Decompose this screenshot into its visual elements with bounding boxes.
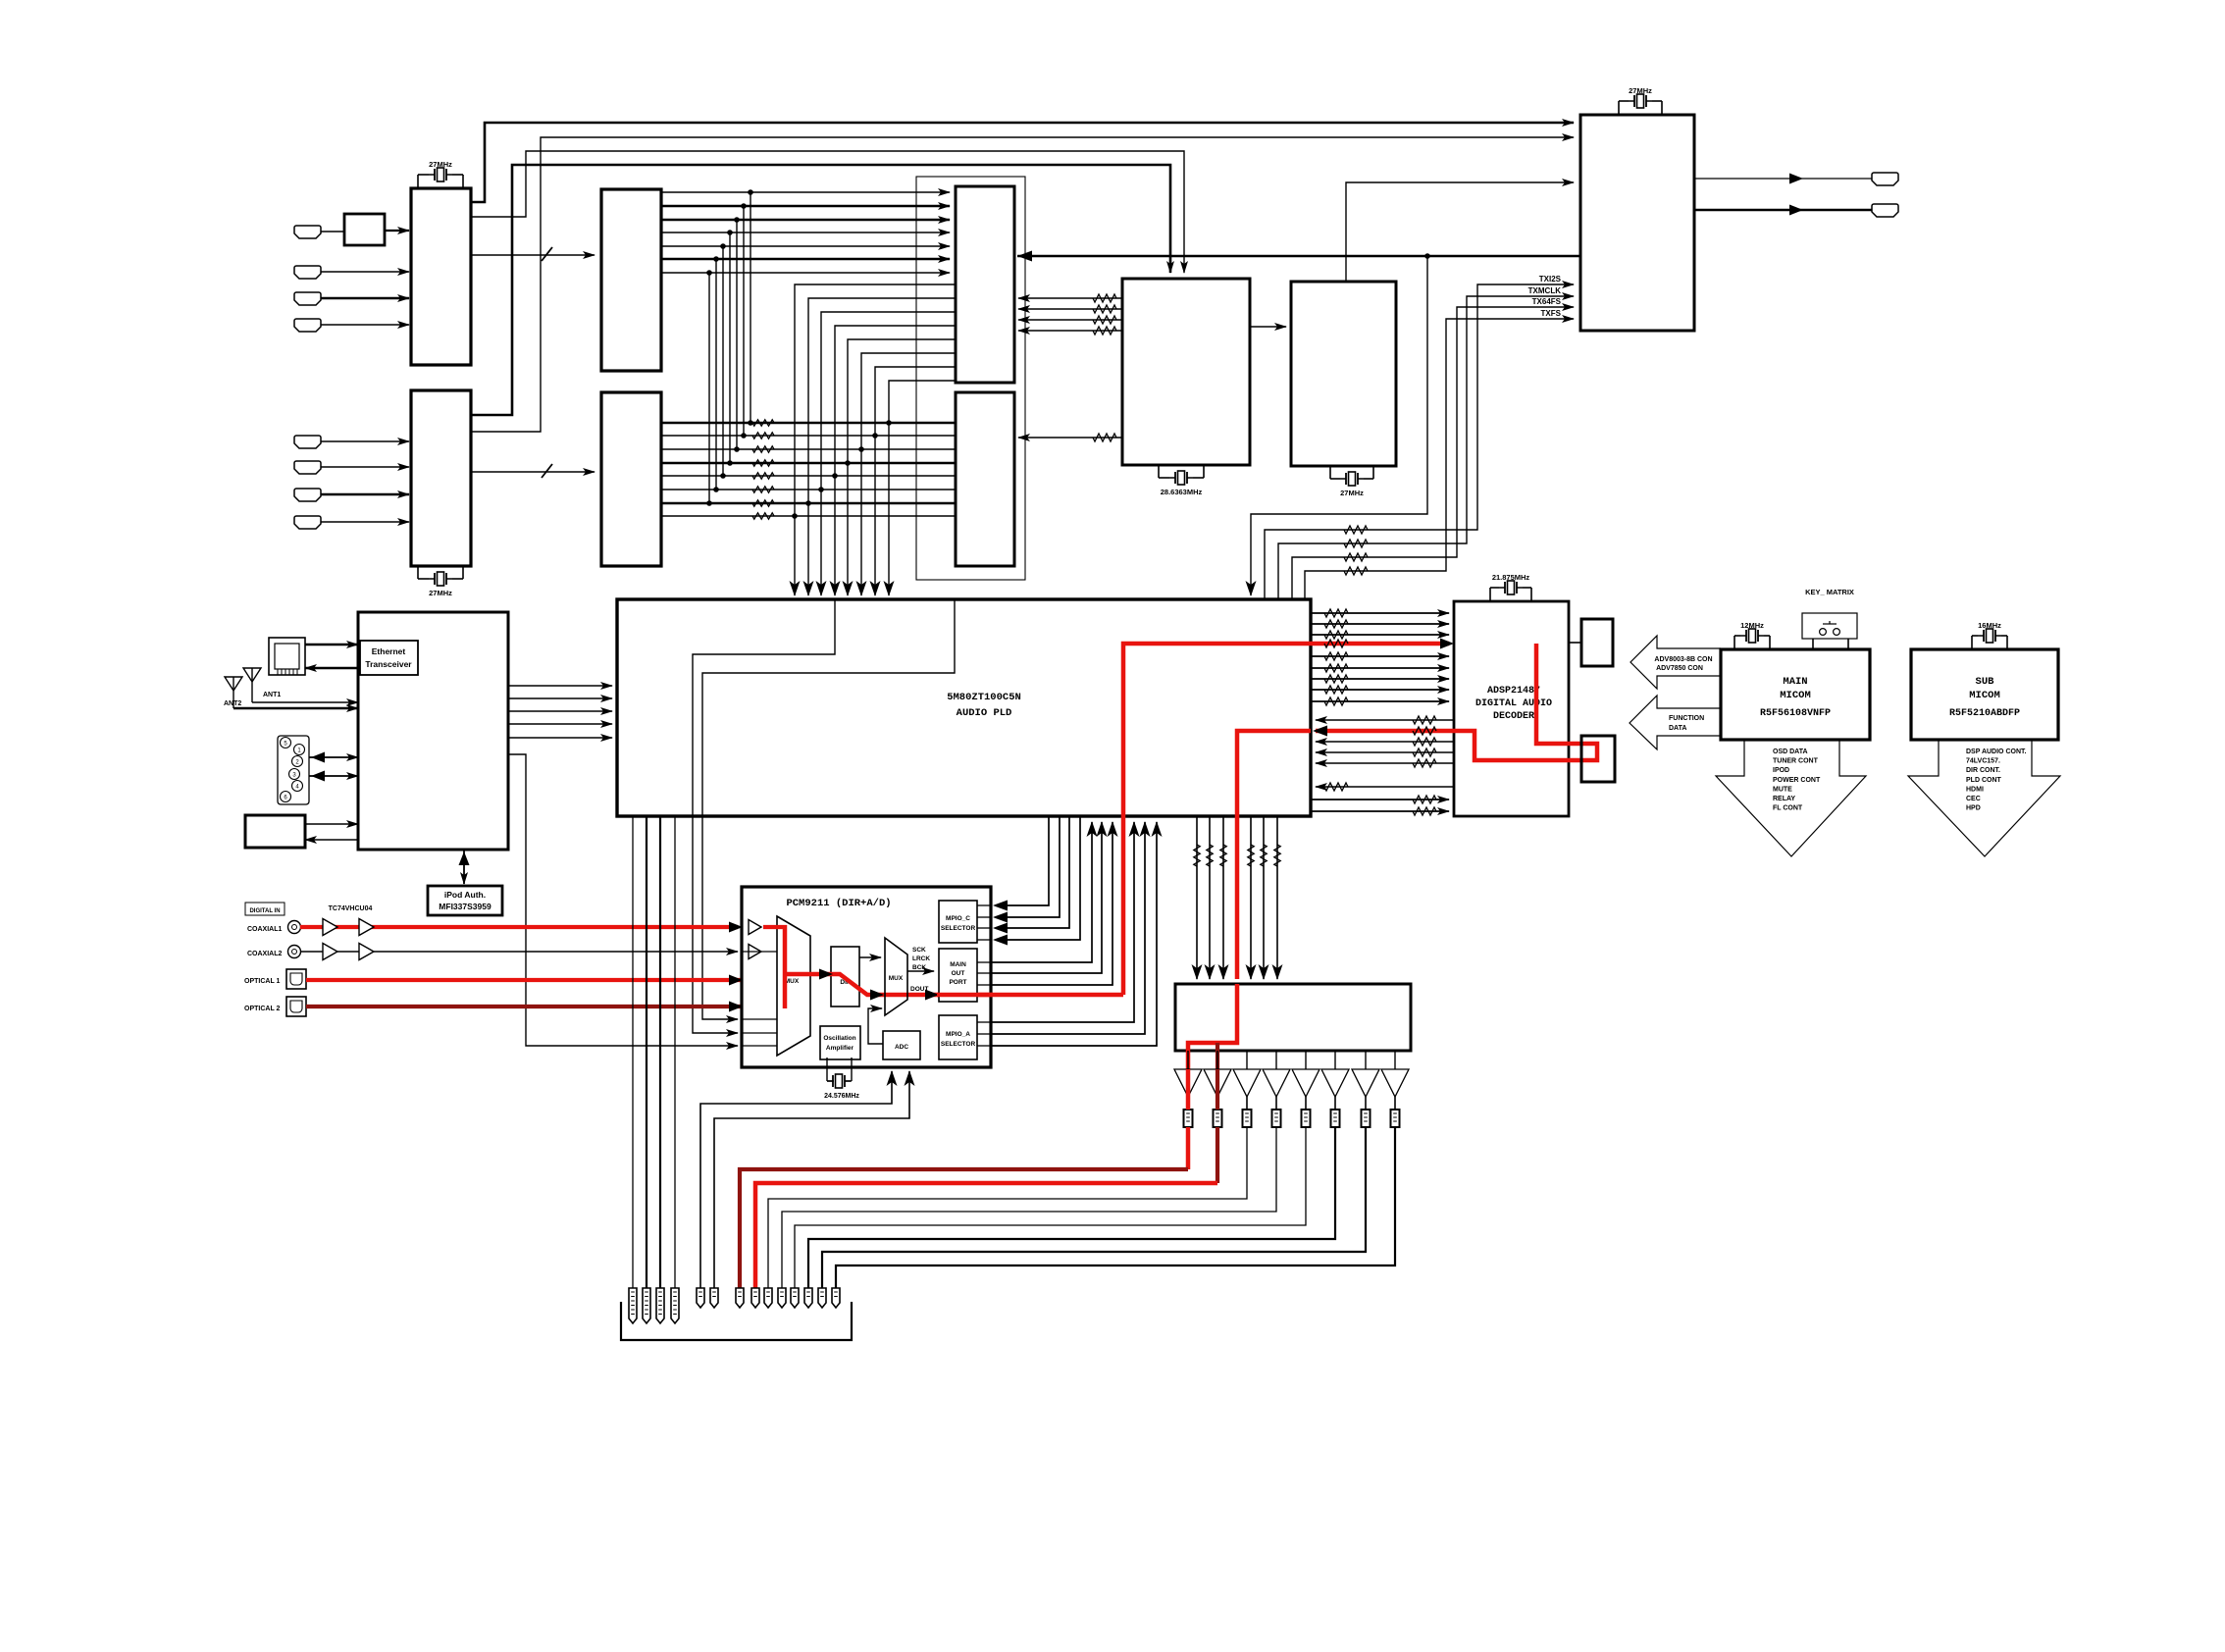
- net PLD-DSP4: audio PLD to ADSP: [1311, 655, 1449, 657]
- net DSP-PLD2: ADSP to audio PLD: [1316, 741, 1454, 743]
- net PLD to driver 1: [1196, 816, 1198, 979]
- junction: [858, 446, 864, 452]
- resistor on red return net: [1413, 727, 1436, 735]
- ferrite bead FB6: [1331, 1110, 1340, 1127]
- svg-text:SCK: SCK: [912, 947, 926, 954]
- crystal X9 16MHz on U19: [1971, 636, 1973, 649]
- net driver out 3 to pin: [768, 1127, 1247, 1288]
- connector pin P2: [643, 1288, 650, 1323]
- HDMI transmitter U9: [1580, 115, 1694, 331]
- DIR box: [831, 947, 859, 1007]
- DIN connector J12 with pins 1-6: [278, 736, 309, 804]
- red net DOUT riser to ADSP (through PLD): [1123, 644, 1449, 995]
- ferrite bead FB1: [1184, 1110, 1193, 1127]
- MAIN MICOM U18: [1721, 649, 1870, 740]
- wire U11 to audio PLD row 5: [508, 737, 612, 739]
- net TX64FS: audio PLD to HDMI TX: [1292, 307, 1574, 599]
- wire J2 to U2: [321, 271, 409, 273]
- wire U5 pin row 2 via resistor to U6b: [661, 435, 956, 437]
- svg-text:21.875MHz: 21.875MHz: [1492, 573, 1530, 582]
- crystal X8 12MHz on U18: [1733, 636, 1735, 649]
- resistor: [1194, 845, 1200, 866]
- connector pin P5: [697, 1288, 704, 1308]
- junction: [713, 256, 719, 262]
- wire J12 to U11 bidirectional (pair 2): [309, 775, 358, 777]
- svg-text:DECODER: DECODER: [1493, 711, 1534, 722]
- svg-text:DOUT: DOUT: [910, 986, 928, 993]
- video decoder U7: [1122, 279, 1250, 465]
- connector pin P9: [764, 1288, 772, 1308]
- svg-text:LRCK: LRCK: [912, 955, 930, 962]
- svg-text:ANT2: ANT2: [224, 700, 241, 707]
- wire to ferrite bead: [1216, 1097, 1218, 1110]
- branch wire down to lower bus: [736, 220, 738, 449]
- ferrite bead FB3: [1243, 1110, 1252, 1127]
- net PLDTOP7: audio PLD top to U6a: [875, 367, 956, 595]
- red net into ADSP (arrowhead): [1440, 639, 1454, 649]
- net PLD to driver 5: [1263, 816, 1265, 979]
- resistor: [1274, 845, 1280, 866]
- connector pin P1: [629, 1288, 637, 1323]
- svg-text:COAXIAL1: COAXIAL1: [247, 926, 283, 933]
- wires aux inside to MUX: [743, 1018, 777, 1020]
- level shifter U5 (lower): [601, 392, 661, 566]
- crystal X1 27MHz on U2: [417, 175, 419, 188]
- svg-text:ANT1: ANT1: [263, 692, 281, 698]
- wire J12 to U11 bidirectional (pair): [309, 756, 358, 758]
- net SPDIF OPT2 (dark red): [306, 1005, 785, 1008]
- audio driver block U17: [1175, 984, 1411, 1051]
- wire U7 to U6b via resistor: [1018, 437, 1122, 439]
- wire U4 pin row 5 to U6a: [661, 245, 950, 247]
- HDMI output connector J10: [1872, 204, 1898, 217]
- net PLDTOP6: audio PLD top to U6a: [861, 353, 956, 595]
- front USB box J13: [245, 815, 305, 848]
- net MPIO_A3: U15 to audio PLD: [977, 1045, 991, 1047]
- svg-text:RELAY: RELAY: [1773, 796, 1795, 802]
- red net DOUT over MAIN OUT PORT: [937, 993, 993, 998]
- wire U11 to J13: [305, 839, 358, 841]
- connector CN1: [1581, 619, 1613, 666]
- wire U4 pin row 4 to U6a: [661, 232, 950, 233]
- input buffer into U15 (coax2): [749, 945, 761, 959]
- MPIO_A SELECTOR box: [939, 1015, 977, 1059]
- block arrow FUNCTION DATA: [1630, 696, 1721, 749]
- svg-text:IPOD: IPOD: [1773, 767, 1789, 774]
- svg-text:AUDIO PLD: AUDIO PLD: [957, 707, 1012, 719]
- svg-text:iPod Auth.: iPod Auth.: [444, 890, 486, 900]
- svg-text:COAXIAL2: COAXIAL2: [247, 951, 283, 957]
- connector bracket outline: [621, 1302, 852, 1340]
- resistor: [1324, 664, 1348, 672]
- svg-text:SELECTOR: SELECTOR: [941, 1041, 976, 1048]
- junction: [734, 446, 740, 452]
- wire U5 pin row 5 via resistor to U6b: [661, 475, 956, 477]
- svg-text:DSP AUDIO CONT.: DSP AUDIO CONT.: [1966, 749, 2027, 755]
- ferrite bead FB2: [1214, 1110, 1222, 1127]
- connector pin P11: [791, 1288, 799, 1308]
- resistor: [1248, 845, 1254, 866]
- resistor on TXFS: [1344, 567, 1368, 575]
- svg-text:27MHz: 27MHz: [429, 589, 452, 597]
- PCM9211 U15 (DIR+A/D): [742, 887, 991, 1067]
- wire J3 to U2 (thick): [321, 297, 409, 299]
- connector pin P3: [656, 1288, 664, 1323]
- red net inside audio PLD down to driver: [1237, 731, 1311, 979]
- wire ADC to MUX2: [868, 1008, 883, 1044]
- wire PLD to pin P2: [646, 816, 647, 1288]
- label DIGITAL IN: [245, 903, 285, 915]
- connector pin P7: [736, 1288, 744, 1308]
- line driver inverter 4: [1275, 1051, 1277, 1069]
- junction: [845, 460, 851, 466]
- resistor R31: [1093, 305, 1116, 313]
- junction: [818, 487, 824, 492]
- wire U4 pin row 7 to U6a: [661, 272, 950, 274]
- network module U11: [358, 612, 508, 850]
- net PLDTOP1: audio PLD top to U6a: [795, 284, 956, 595]
- net PLD to driver 2: [1209, 816, 1211, 979]
- wire U7 row 2 to U6a: [1018, 308, 1122, 310]
- resistor: [1324, 697, 1348, 705]
- net MPIO_C3: audio PLD to U15: [977, 927, 991, 929]
- branch wire down to lower bus: [729, 232, 731, 463]
- resistor: [1324, 686, 1348, 694]
- net PLD-DSP5: audio PLD to ADSP: [1311, 667, 1449, 669]
- wire to ferrite bead: [1365, 1097, 1367, 1110]
- svg-text:MICOM: MICOM: [1780, 690, 1811, 701]
- net driver out 5 to pin: [795, 1127, 1306, 1288]
- crystal X6 24.576MHz under oscillation amplifier: [826, 1058, 828, 1081]
- ferrite bead FB5: [1302, 1110, 1311, 1127]
- dark red net through inverter 2: [1216, 1069, 1219, 1110]
- HDMI switch IC U3 (lower): [411, 390, 471, 566]
- red net through inverter 1: [1186, 1069, 1191, 1110]
- svg-text:SUB: SUB: [1976, 676, 1995, 688]
- net SPDIF OPT1 (red): [306, 978, 859, 982]
- net DSP-PLD1: ADSP to audio PLD: [1316, 719, 1454, 721]
- net PLD-DSP6: audio PLD to ADSP: [1311, 678, 1449, 680]
- svg-text:ADV7850 CON: ADV7850 CON: [1656, 665, 1703, 672]
- connector pin P8: [751, 1288, 759, 1308]
- line driver inverter 1: [1187, 1051, 1189, 1069]
- video encoder U8: [1291, 282, 1396, 466]
- svg-text:OPTICAL 2: OPTICAL 2: [244, 1006, 281, 1012]
- connector pin P10: [778, 1288, 786, 1308]
- wire to ferrite bead: [1334, 1097, 1336, 1110]
- ferrite bead FB7: [1362, 1110, 1371, 1127]
- resistor R30: [1093, 294, 1116, 302]
- wire PLD to pin P1: [632, 816, 634, 1288]
- crystal X2 27MHz under U3: [417, 566, 419, 579]
- wire U16 to connector CN1: [1569, 642, 1581, 644]
- net PLD-DSP1: audio PLD to ADSP: [1311, 612, 1449, 614]
- HDMI input connector J7: [294, 489, 321, 501]
- KEY_MATRIX switch box: [1812, 639, 1814, 649]
- bus U2 to U4 with width slash: [471, 254, 595, 256]
- svg-text:HPD: HPD: [1966, 805, 1981, 812]
- resistor R24: [752, 473, 774, 479]
- svg-text:27MHz: 27MHz: [1340, 489, 1364, 497]
- resistor on TXI2S: [1344, 526, 1368, 534]
- net MPIO_C1: audio PLD to U15: [977, 904, 991, 906]
- TMDS selector U6b (lower): [956, 392, 1014, 566]
- EDID buffer box U14: [344, 214, 385, 245]
- wire U11 to PCM9211 aux in: [508, 754, 738, 1046]
- resistor: [1207, 845, 1213, 866]
- wire U7 row 1 to U6a: [1018, 297, 1122, 299]
- junction: [748, 420, 753, 426]
- wire J8 to U3: [321, 521, 409, 523]
- line driver inverter 8: [1394, 1051, 1396, 1069]
- wire U4 pin row 6 to U6a: [661, 258, 950, 261]
- crystal X3 28.6363MHz under U7: [1158, 465, 1160, 478]
- MAIN MICOM output arrow (hollow): [1716, 740, 1866, 856]
- red net inside driver U17: [1188, 984, 1237, 1069]
- wire audio PLD routed to PCM9211 aux in 3: [693, 599, 835, 1033]
- svg-text:DIR CONT.: DIR CONT.: [1966, 767, 2000, 774]
- resistor: [1261, 845, 1267, 866]
- ADC box: [883, 1031, 920, 1059]
- resistor R23: [752, 460, 774, 466]
- resistor R25: [752, 487, 774, 492]
- svg-text:TXFS: TXFS: [1541, 309, 1562, 318]
- svg-text:R5F56108VNFP: R5F56108VNFP: [1760, 708, 1831, 719]
- wire U11 to audio PLD row 4: [508, 723, 612, 725]
- resistor on TX64FS: [1344, 553, 1368, 561]
- resistor: [1413, 738, 1436, 746]
- MPIO_C SELECTOR box: [939, 901, 977, 943]
- svg-text:Amplifier: Amplifier: [826, 1045, 854, 1052]
- net PLD-DSP2: audio PLD to ADSP: [1311, 623, 1449, 625]
- net PLD-DSP7: audio PLD to ADSP: [1311, 689, 1449, 691]
- svg-text:SELECTOR: SELECTOR: [941, 925, 976, 932]
- resistor: [1413, 759, 1436, 767]
- net MAINOUT2: U15 to audio PLD: [977, 972, 991, 974]
- bus U3 to U5 with width slash: [471, 471, 595, 473]
- resistor: [1413, 749, 1436, 756]
- junction: [720, 243, 726, 249]
- junction CTRL branch: [1424, 253, 1430, 259]
- svg-text:28.6363MHz: 28.6363MHz: [1161, 488, 1203, 496]
- net PLDTOP3: audio PLD top to U6a: [821, 312, 956, 595]
- svg-text:ADC: ADC: [895, 1044, 908, 1051]
- wire U2 out to HDMI TX (net TOP1, thick): [471, 123, 1574, 202]
- svg-text:Transceiver: Transceiver: [365, 659, 412, 669]
- HDMI input connector J8: [294, 516, 321, 529]
- line driver inverter 7: [1365, 1051, 1367, 1069]
- HDMI input connector J6: [294, 461, 321, 474]
- wire COAXIAL2 inside to MUX: [743, 951, 777, 953]
- resistor on red net: [1324, 640, 1348, 647]
- branch wire down to lower bus: [715, 259, 717, 490]
- wire U9 to HDMI out connector J9: [1694, 178, 1872, 180]
- net SPDIF COAX2: [300, 951, 738, 953]
- net driver out 6 to pin: [808, 1127, 1335, 1288]
- svg-text:27MHz: 27MHz: [429, 160, 452, 169]
- resistor R33: [1093, 327, 1116, 335]
- resistor: [1324, 620, 1348, 628]
- net MPIO_C4: audio PLD to U15: [977, 939, 991, 941]
- MUX trapezoid: [777, 916, 810, 1056]
- wire U11 to audio PLD row 1: [508, 685, 612, 687]
- resistor R22: [752, 446, 774, 452]
- TMDS selector U6a (upper): [956, 186, 1014, 383]
- junction: [727, 230, 733, 235]
- net driver out 7 to pin: [822, 1127, 1366, 1288]
- wire to ferrite bead: [1187, 1097, 1189, 1110]
- junction: [727, 460, 733, 466]
- connector pin P14: [832, 1288, 840, 1308]
- resistor R20: [752, 420, 774, 426]
- net TXMCLK: audio PLD to HDMI TX: [1278, 296, 1574, 599]
- junction: [706, 500, 712, 506]
- resistor R27: [752, 513, 774, 519]
- resistor: [1220, 845, 1226, 866]
- resistor R26: [752, 500, 774, 506]
- junction: [741, 203, 747, 209]
- line driver inverter 6: [1334, 1051, 1336, 1069]
- svg-text:MPIO_A: MPIO_A: [946, 1031, 970, 1038]
- svg-text:MAIN: MAIN: [950, 961, 966, 968]
- net MAINOUT3: U15 to audio PLD: [977, 984, 991, 986]
- connector pin P12: [804, 1288, 812, 1308]
- svg-text:27MHz: 27MHz: [1629, 86, 1652, 95]
- net SPDIF COAX1 (red): [300, 925, 738, 929]
- resistor: [1324, 609, 1348, 617]
- wire DIR to MUX2: [859, 956, 881, 958]
- svg-text:HDMI: HDMI: [1966, 786, 1984, 793]
- buffer U13d: [359, 944, 374, 960]
- wire ANT1 to U11: [252, 701, 358, 703]
- label box Ethernet Transceiver: [360, 641, 418, 675]
- HDMI input connector J1: [294, 226, 321, 238]
- net PLDTOP5: audio PLD top to U6a: [848, 339, 956, 595]
- net DSP-PLD5: ADSP to audio PLD: [1316, 786, 1454, 788]
- input buffer into U15 (coax1): [749, 920, 761, 935]
- wire J1 to EDID box: [321, 231, 344, 232]
- svg-text:MUX: MUX: [889, 975, 904, 982]
- wire U5 pin row 1 via resistor to U6b: [661, 422, 956, 424]
- wire U5 pin row 3 via resistor to U6b: [661, 448, 956, 450]
- svg-text:TX64FS: TX64FS: [1532, 297, 1562, 306]
- junction: [805, 500, 811, 506]
- svg-text:TUNER CONT: TUNER CONT: [1773, 758, 1819, 765]
- svg-text:MAIN: MAIN: [1783, 676, 1807, 688]
- branch down/left into audio PLD top: [1251, 256, 1427, 595]
- wire U5 pin row 6 via resistor to U6b: [661, 489, 956, 490]
- connector pin P4: [671, 1288, 679, 1323]
- red net inside MUX: [783, 925, 788, 1008]
- wire J7 to U3 (thick): [321, 493, 409, 495]
- junction: [886, 420, 892, 426]
- branch wire down to lower bus: [708, 273, 710, 503]
- wire to ferrite bead: [1305, 1097, 1307, 1110]
- net PLD-DSP3: audio PLD to ADSP: [1311, 634, 1449, 636]
- wire to ferrite bead: [1246, 1097, 1248, 1110]
- wire audio PLD routed to PCM9211 aux in 2: [702, 599, 955, 1019]
- wire MUX2 to MAIN OUT PORT (SCK/LRCK/BCK): [907, 970, 934, 972]
- HDMI output connector J9: [1872, 173, 1898, 185]
- connector pin P6: [710, 1288, 718, 1308]
- net PLDTOP4: audio PLD top to U6a: [835, 326, 956, 595]
- svg-text:5M80ZT100C5N: 5M80ZT100C5N: [947, 692, 1021, 703]
- buffer U13b: [359, 919, 374, 936]
- wire U3 out to video decoder U6 (net TOP4, thick): [471, 165, 1170, 415]
- net PLD to driver 3: [1222, 816, 1224, 979]
- net PLD-DSP9: [1311, 799, 1449, 800]
- resistor: [1413, 716, 1436, 724]
- svg-text:FL CONT: FL CONT: [1773, 805, 1803, 812]
- svg-text:12MHz: 12MHz: [1740, 621, 1764, 630]
- net PLD-DSP10: [1311, 810, 1449, 812]
- net PLD to driver 6: [1276, 816, 1278, 979]
- ferrite bead FB8: [1391, 1110, 1400, 1127]
- connector CN2: [1581, 736, 1615, 782]
- wire U5 pin row 7 via resistor to U6b: [661, 502, 956, 504]
- resistor R21: [752, 433, 774, 439]
- net driver out 8 to pin: [836, 1127, 1395, 1288]
- buffer U13a: [323, 919, 337, 936]
- junction: [720, 473, 726, 479]
- net DSP-PLD4: ADSP to audio PLD: [1316, 762, 1454, 764]
- resistor: [1324, 631, 1348, 639]
- crystal X5 27MHz on U9: [1618, 101, 1620, 115]
- wire U7 row 4 to U6a: [1018, 330, 1122, 332]
- svg-text:Oscillation: Oscillation: [823, 1035, 855, 1042]
- HDMI input connector J4: [294, 319, 321, 332]
- block arrow ADV8003-8B CON / ADV7850 CON: [1630, 636, 1721, 689]
- svg-text:MPIO_C: MPIO_C: [946, 915, 970, 922]
- svg-text:16MHz: 16MHz: [1978, 621, 2001, 630]
- red net to output pin P8: [755, 1183, 1217, 1288]
- SUB MICOM output arrow (hollow): [1908, 740, 2060, 856]
- svg-text:DATA: DATA: [1669, 725, 1686, 732]
- branch wire down to lower bus: [722, 246, 724, 476]
- svg-text:FUNCTION: FUNCTION: [1669, 715, 1704, 722]
- MAIN OUT PORT box: [939, 949, 977, 1002]
- module boundary outline around U6 selectors: [916, 177, 1025, 580]
- wire U11 to audio PLD row 2: [508, 697, 612, 699]
- HDMI switch IC U2 (upper): [411, 188, 471, 365]
- antenna ANT2: [225, 677, 242, 691]
- svg-text:OUT: OUT: [952, 970, 965, 977]
- svg-text:TC74VHCU04: TC74VHCU04: [329, 905, 373, 912]
- svg-text:24.576MHz: 24.576MHz: [824, 1093, 859, 1100]
- wire U4 pin row 1 to U6a: [661, 191, 950, 193]
- red net U16 loop through connector CN2: [1316, 644, 1597, 760]
- net DSP-PLD3: ADSP to audio PLD: [1316, 751, 1454, 753]
- net U8 top riser to HDMI TX: [1346, 182, 1574, 282]
- svg-text:POWER CONT: POWER CONT: [1773, 777, 1821, 784]
- branch wire down to lower bus: [750, 192, 751, 423]
- junction: [706, 270, 712, 276]
- svg-text:MUTE: MUTE: [1773, 786, 1792, 793]
- wire U2 out to video decoder U6 (net TOP3): [471, 151, 1184, 273]
- RJ45 jack J11: [269, 638, 305, 675]
- antenna ANT1: [243, 668, 261, 682]
- junction: [792, 513, 798, 519]
- wire U11 to RJ45: [305, 667, 358, 669]
- svg-text:74LVC157.: 74LVC157.: [1966, 758, 2000, 765]
- dark red net to output pin P7: [740, 1169, 1188, 1288]
- svg-text:MFI337S3959: MFI337S3959: [439, 902, 492, 911]
- wire J13 to U11: [305, 823, 358, 825]
- wire to ferrite bead: [1275, 1097, 1277, 1110]
- branch wire down to lower bus: [743, 206, 745, 436]
- crystal X7 21.875MHz on U16: [1489, 588, 1491, 601]
- svg-text:TXMCLK: TXMCLK: [1528, 286, 1562, 295]
